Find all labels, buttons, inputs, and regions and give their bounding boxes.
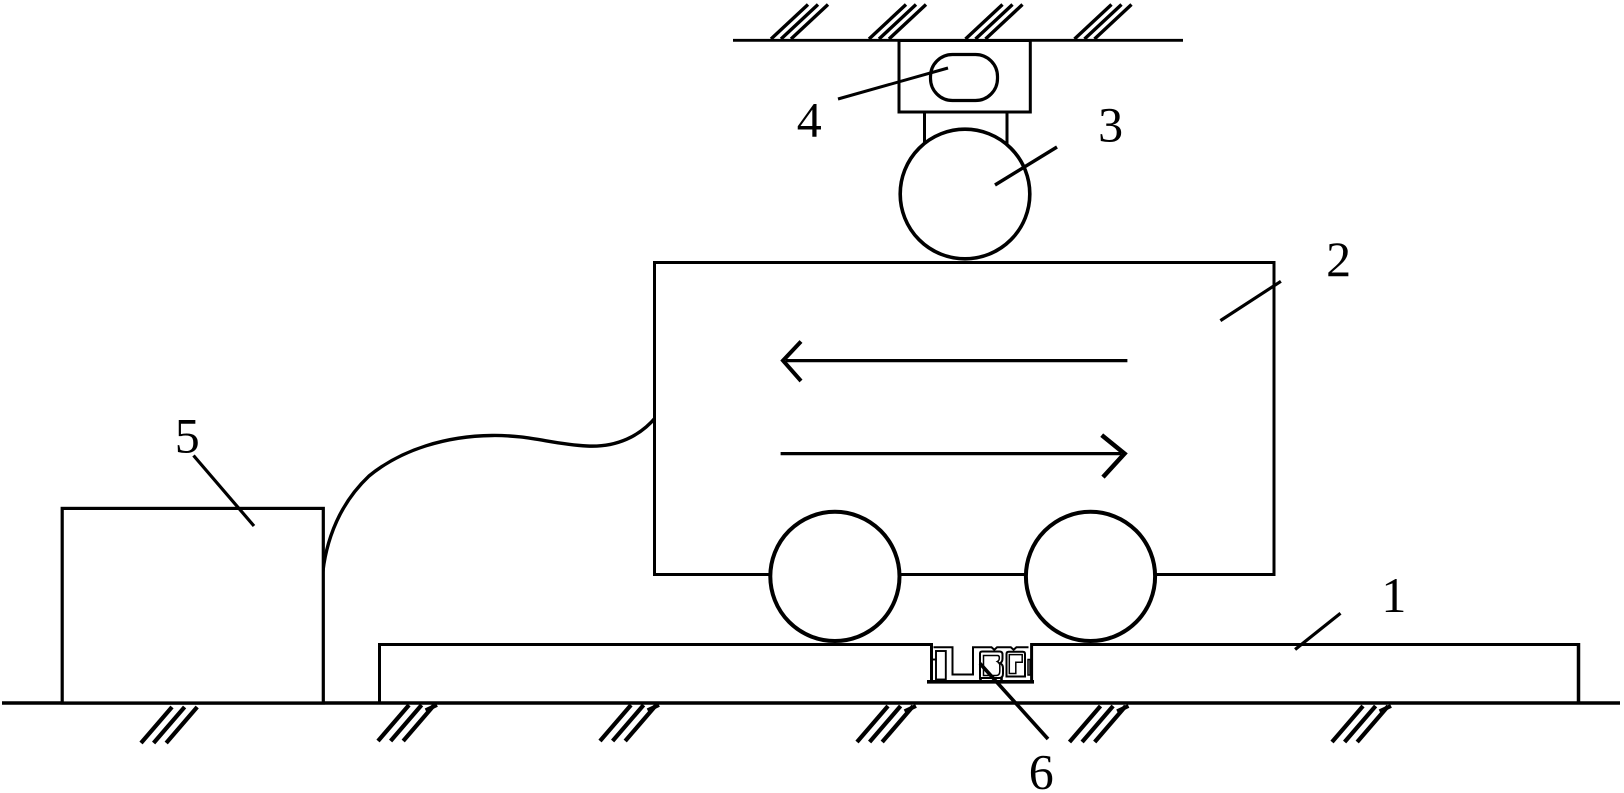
svg-text:1: 1 — [1381, 567, 1406, 623]
svg-text:5: 5 — [175, 407, 200, 463]
svg-text:2: 2 — [1326, 231, 1351, 287]
svg-text:6: 6 — [1029, 743, 1054, 793]
svg-text:4: 4 — [797, 92, 822, 148]
svg-text:3: 3 — [1098, 97, 1123, 153]
